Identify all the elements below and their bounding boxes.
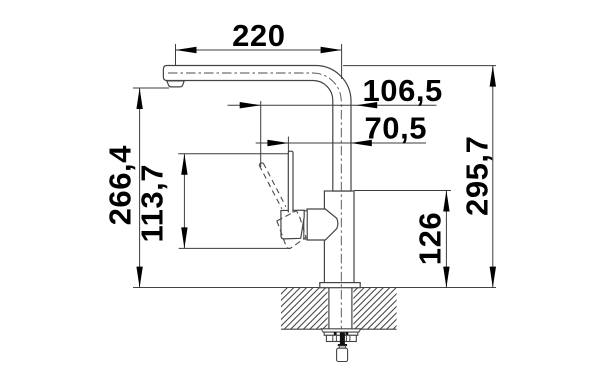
dimension 113,7 arrow down <box>181 227 187 248</box>
dimension 70,5 arrow left <box>267 140 288 146</box>
svg-text:295,7: 295,7 <box>460 136 495 216</box>
svg-text:266,4: 266,4 <box>102 145 137 226</box>
dimension 70,5 extension <box>287 137 289 152</box>
dimension 126 extension top <box>354 190 451 192</box>
dimension 220 arrow right <box>321 47 342 53</box>
dimension 113,7 line <box>183 154 185 249</box>
dimension 220 extension right <box>341 44 343 79</box>
handle dashed tilted rod <box>259 163 286 209</box>
svg-text:126: 126 <box>413 212 448 265</box>
dimension 295,7 arrow down <box>490 267 496 288</box>
base flange <box>320 283 360 288</box>
dimension 266,4 arrow up <box>136 88 142 109</box>
shank tube left edge <box>328 288 330 329</box>
svg-text:220: 220 <box>232 18 285 53</box>
handle lever rod solid <box>288 151 293 212</box>
dimension 295,7 line <box>492 66 494 288</box>
dimension 106,5 arrow right <box>356 102 377 108</box>
countertop bottom line <box>281 328 397 330</box>
countertop top surface line <box>133 287 496 289</box>
aerator nozzle <box>167 81 184 87</box>
spout tube with bend <box>163 66 351 192</box>
dimension 266,4 line <box>139 88 141 288</box>
handle grip solid <box>281 210 304 239</box>
dimension 126 line <box>445 191 447 288</box>
dimension 126 arrow down <box>443 267 449 288</box>
svg-text:113,7: 113,7 <box>135 164 170 243</box>
dimension 220 extension left <box>175 44 177 66</box>
faucet body column <box>324 191 354 283</box>
nut facet line 1 <box>332 335 334 341</box>
svg-text:70,5: 70,5 <box>365 111 428 146</box>
dimension 295,7 extension top <box>343 65 496 67</box>
dimension 220 line <box>176 49 342 51</box>
threaded stud black <box>340 332 345 345</box>
stud band black <box>338 344 347 346</box>
fastening nut <box>326 335 356 341</box>
nut facet line 2 <box>335 335 337 341</box>
countertop hatch lines <box>245 287 442 330</box>
hose weight block <box>337 348 348 361</box>
dimension 126 arrow up <box>443 191 449 212</box>
centerline dash-dot <box>168 73 341 347</box>
mounting bracket <box>324 332 358 335</box>
nut facet line 3 <box>345 335 347 341</box>
dimension 113,7 arrow up <box>181 154 187 175</box>
handle hub ring <box>304 211 307 239</box>
bracket screw left <box>334 332 337 335</box>
dimension 113,7 extension bottom <box>179 247 291 249</box>
handle dashed tilted grip <box>277 211 306 249</box>
nut facet line 4 <box>349 335 351 341</box>
dimension 266,4 arrow down <box>136 267 142 288</box>
dimension 295,7 arrow up <box>490 66 496 87</box>
dimension 106,5 extension <box>260 101 262 167</box>
hose neck <box>339 346 345 348</box>
dimension 70,5 line <box>256 142 426 144</box>
shank tube right edge <box>351 288 353 329</box>
washer plate <box>321 329 361 332</box>
bracket screw right <box>346 332 349 335</box>
dimension 113,7 extension top <box>178 153 288 155</box>
dimension 106,5 line <box>228 104 437 106</box>
dimension 220 arrow left <box>176 47 197 53</box>
svg-text:106,5: 106,5 <box>363 73 443 108</box>
dimension 266,4 extension top <box>133 87 169 89</box>
dimension 70,5 arrow right <box>351 140 372 146</box>
dimension 106,5 arrow left <box>240 102 261 108</box>
cartridge housing pentagon <box>307 209 338 240</box>
